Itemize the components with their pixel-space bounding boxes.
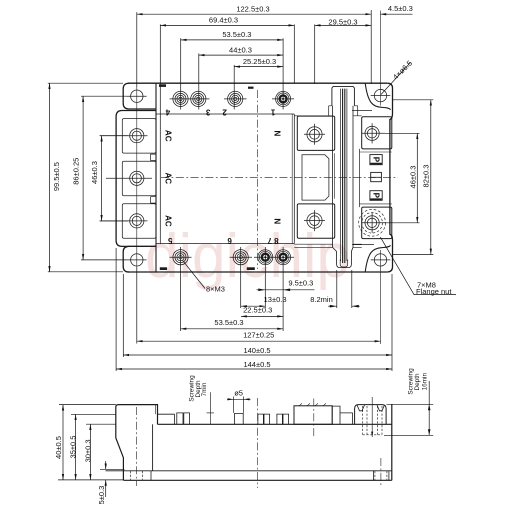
mounting hole top-right xyxy=(374,89,386,101)
ext 40 xyxy=(59,404,116,406)
deck step under N/P bottom xyxy=(294,244,361,247)
svg-text:140±0.5: 140±0.5 xyxy=(243,346,270,355)
AC housing xyxy=(116,111,156,247)
svg-text:69.4±0.3: 69.4±0.3 xyxy=(209,16,238,25)
svg-text:122.5±0.3: 122.5±0.3 xyxy=(236,5,269,14)
crosshair terminal 6 xyxy=(230,256,253,258)
nut tower xyxy=(355,405,387,425)
P screw top xyxy=(365,126,379,140)
ext lines left xyxy=(48,82,123,84)
P screw bottom xyxy=(365,216,379,230)
terminal 3 xyxy=(191,91,206,106)
svg-text:AC: AC xyxy=(163,130,172,142)
P box thick bottoms xyxy=(370,164,382,200)
N terminal block bottom xyxy=(297,204,334,238)
terminal 2 xyxy=(228,91,243,106)
right foot edges xyxy=(374,471,389,481)
left foot hole hidden lines xyxy=(131,471,143,480)
svg-text:16min: 16min xyxy=(421,373,428,391)
mounting ear top-right inner cut xyxy=(365,83,390,109)
ledge block xyxy=(158,414,175,424)
gate stud phi5 xyxy=(235,413,244,424)
svg-text:13±0.3: 13±0.3 xyxy=(264,295,287,304)
mounting hole top-left xyxy=(131,90,143,102)
svg-text:7: 7 xyxy=(267,236,272,245)
AC screw 2 xyxy=(130,171,144,185)
dim 8.2min tails xyxy=(328,305,360,307)
dim 140 xyxy=(123,354,392,356)
svg-text:127±0.25: 127±0.25 xyxy=(243,330,274,339)
dim 5 tails xyxy=(105,461,107,469)
svg-text:P: P xyxy=(371,193,380,199)
side deck line xyxy=(158,423,392,425)
svg-text:5: 5 xyxy=(168,236,173,245)
svg-text:1: 1 xyxy=(270,108,275,117)
vertical centerline xyxy=(257,90,259,269)
step column xyxy=(332,406,340,424)
16min ext top xyxy=(387,403,434,405)
terminal 8 xyxy=(276,250,291,265)
phi5 dim xyxy=(234,397,244,413)
svg-text:Flange nut: Flange nut xyxy=(416,287,452,296)
svg-text:99.5±0.5: 99.5±0.5 xyxy=(52,162,61,191)
leader 7xM8 xyxy=(380,237,456,295)
svg-text:46±0.3: 46±0.3 xyxy=(408,166,417,189)
terminal 4 xyxy=(173,91,188,106)
dim 46 right xyxy=(416,133,418,223)
AC terminal block 1 xyxy=(122,119,156,154)
AC screw 1 xyxy=(130,129,144,143)
dim 99.5 xyxy=(49,83,51,272)
AC terminal block 2 xyxy=(122,161,156,196)
svg-text:digichip: digichip xyxy=(145,222,350,291)
dim 86 xyxy=(82,96,84,260)
right top hole vertical crosshair + ext to 4.5 dim xyxy=(380,11,382,106)
svg-text:N: N xyxy=(272,218,281,224)
side case left edge xyxy=(152,424,154,471)
N mid busbar pocket xyxy=(302,155,329,200)
svg-text:9.5±0.3: 9.5±0.3 xyxy=(288,278,313,287)
ext lines bottom xyxy=(115,248,117,371)
svg-text:2: 2 xyxy=(222,108,227,117)
nut hidden bottom xyxy=(363,434,382,436)
ext lines right xyxy=(393,99,434,101)
N tower side xyxy=(294,406,332,425)
svg-text:4: 4 xyxy=(165,108,170,117)
dim 44 xyxy=(199,54,283,56)
dim 46 left xyxy=(101,136,103,221)
phi5 arrows xyxy=(228,398,250,400)
svg-text:7min: 7min xyxy=(201,382,208,396)
leader 4x6.5 xyxy=(381,63,411,95)
leader 8xM3 xyxy=(183,260,206,288)
svg-text:29.5±0.3: 29.5±0.3 xyxy=(328,17,357,26)
twin strip lines xyxy=(341,89,347,261)
N tower centerline xyxy=(313,399,315,438)
dim 122.5 xyxy=(137,13,371,15)
svg-text:Depth: Depth xyxy=(414,373,421,390)
tower step line xyxy=(155,405,157,415)
left column centerline through holes and AC xyxy=(136,87,138,269)
16min arrows xyxy=(428,404,431,435)
module centerline side xyxy=(257,398,259,488)
small P box 2 xyxy=(370,191,382,201)
crosshair terminals 4-3 xyxy=(170,98,210,100)
AC housing notch 1 xyxy=(151,154,157,160)
deck step over N/P top xyxy=(294,115,361,117)
stud a xyxy=(177,413,183,424)
svg-text:AC: AC xyxy=(163,173,172,185)
case right edge xyxy=(387,83,392,272)
P terminal block top xyxy=(362,117,392,149)
mounting ear bottom-left xyxy=(123,246,156,272)
svg-text:N: N xyxy=(272,131,281,137)
svg-text:53.5±0.3: 53.5±0.3 xyxy=(222,30,251,39)
vertical line left of P column xyxy=(359,149,361,207)
module bottom edge xyxy=(128,271,387,273)
stud b xyxy=(184,413,190,424)
dim 22.5 xyxy=(241,315,283,317)
left foot inner edge xyxy=(150,471,152,481)
dim 53.5 bottom xyxy=(181,328,284,330)
arrows 9.5 outside xyxy=(258,289,290,292)
svg-text:82±0.3: 82±0.3 xyxy=(422,165,431,188)
svg-text:6: 6 xyxy=(227,236,232,245)
flange nut dashed circles xyxy=(362,213,383,234)
studs d xyxy=(277,414,289,424)
arrows 8.2 outside xyxy=(330,305,359,308)
svg-text:ø5: ø5 xyxy=(234,389,243,398)
svg-text:35±0.5: 35±0.5 xyxy=(69,436,78,459)
svg-text:3: 3 xyxy=(205,108,210,117)
case top marks xyxy=(159,84,166,87)
interior vertical wall second xyxy=(291,114,293,244)
terminal 6 xyxy=(233,250,248,265)
dim 144 xyxy=(116,368,392,370)
module top edge xyxy=(128,82,387,84)
nut notch left xyxy=(357,405,365,411)
svg-text:44±0.3: 44±0.3 xyxy=(229,45,252,54)
dim 9.5 xyxy=(257,289,315,291)
dim 35 xyxy=(75,414,77,480)
dim 40 xyxy=(62,405,64,480)
case step near top-right ear xyxy=(352,109,372,111)
dim 30 xyxy=(89,424,91,480)
svg-text:46±0.3: 46±0.3 xyxy=(90,161,99,184)
mounting hole bottom-right xyxy=(374,254,386,266)
nut hidden lines xyxy=(363,406,382,435)
svg-text:5±0.3: 5±0.3 xyxy=(97,486,106,505)
right foot hole hidden lines xyxy=(375,471,387,480)
svg-text:40±0.5: 40±0.5 xyxy=(54,436,63,459)
dim 13 xyxy=(241,305,265,307)
crosshair terminals 7-8 xyxy=(254,256,294,258)
ext lines top xyxy=(136,12,138,87)
svg-text:8×M3: 8×M3 xyxy=(206,284,225,293)
16min ext bottom xyxy=(384,434,433,436)
top deck bottom line xyxy=(156,113,294,115)
bottom deck top line xyxy=(156,243,294,245)
svg-text:25.25±0.3: 25.25±0.3 xyxy=(243,57,276,66)
crosshair terminal 2 xyxy=(224,98,247,100)
ledge right xyxy=(340,413,352,424)
svg-text:8: 8 xyxy=(274,236,279,245)
strip foot xyxy=(333,247,354,267)
AC terminal block 3 xyxy=(122,204,156,239)
N screw bottom xyxy=(307,213,322,228)
ext 5 xyxy=(100,468,125,470)
dim 16min xyxy=(428,381,430,435)
dim 69.4 xyxy=(160,24,294,26)
ext bottom xyxy=(58,479,123,481)
svg-text:22.5±0.3: 22.5±0.3 xyxy=(243,306,272,315)
interior vertical wall xyxy=(293,114,295,244)
svg-text:86±0.25: 86±0.25 xyxy=(71,158,80,185)
dim 53.5 xyxy=(181,39,283,41)
ext 30 xyxy=(86,423,116,425)
N tower hatch xyxy=(299,403,326,405)
case left wall xyxy=(155,83,157,272)
side tower AC profile xyxy=(116,405,158,481)
case bottom marks xyxy=(160,267,167,270)
dim 25.25 xyxy=(234,66,283,68)
top deck inner left edge xyxy=(159,83,161,243)
svg-text:144±0.5: 144±0.5 xyxy=(243,360,270,369)
svg-text:P: P xyxy=(371,157,380,163)
svg-text:AC: AC xyxy=(163,215,172,227)
right hole centerline side xyxy=(380,458,382,486)
svg-text:4.5±0.3: 4.5±0.3 xyxy=(388,4,413,13)
svg-text:30±0.3: 30±0.3 xyxy=(83,439,92,462)
right bottom hole vertical crosshair + ext to 127 dim xyxy=(380,250,382,344)
side case right edge xyxy=(391,404,393,480)
dim 29.5 xyxy=(315,24,372,26)
nut center indicator xyxy=(371,397,373,437)
svg-text:8.2min: 8.2min xyxy=(310,295,333,304)
P terminal block bottom with flange nut xyxy=(362,207,392,239)
left hole centerline side xyxy=(136,407,138,486)
P column step lines xyxy=(360,152,392,204)
dim 127 xyxy=(137,340,381,342)
dim 4.5 xyxy=(380,13,412,15)
mounting hole bottom-left xyxy=(131,254,143,266)
ext 35 xyxy=(71,413,116,415)
N terminal block top xyxy=(297,116,334,150)
case step near bottom-right ear xyxy=(352,244,374,246)
dim 82 xyxy=(430,100,432,255)
mounting ear top-left xyxy=(123,83,156,109)
crosshair terminal 5 xyxy=(170,256,192,258)
terminal 7 xyxy=(258,250,273,265)
AC housing notch 2 xyxy=(151,197,157,203)
nut notch right xyxy=(377,405,385,411)
small P box 1 xyxy=(370,155,382,165)
studs c xyxy=(258,414,270,424)
side bottom edge xyxy=(123,479,391,481)
terminal 5 xyxy=(173,250,188,265)
N screw top xyxy=(307,127,322,142)
mounting ear bottom-right inner cut xyxy=(365,245,390,272)
crosshair terminal 1 xyxy=(272,98,294,100)
svg-text:53.5±0.3: 53.5±0.3 xyxy=(214,318,243,327)
plateau shelf ticks xyxy=(329,106,358,116)
side baseplate top line xyxy=(106,470,392,472)
line right of pocket xyxy=(334,153,336,198)
strip channel walls xyxy=(333,106,354,248)
7min indicator xyxy=(209,392,211,424)
horizontal centerline xyxy=(161,176,398,178)
AC screw 3 xyxy=(130,214,144,228)
terminal 1 xyxy=(276,91,291,106)
groove strip plateau top cap xyxy=(332,86,355,105)
twin strip bottom cap xyxy=(340,260,348,268)
small plain box xyxy=(371,172,382,181)
